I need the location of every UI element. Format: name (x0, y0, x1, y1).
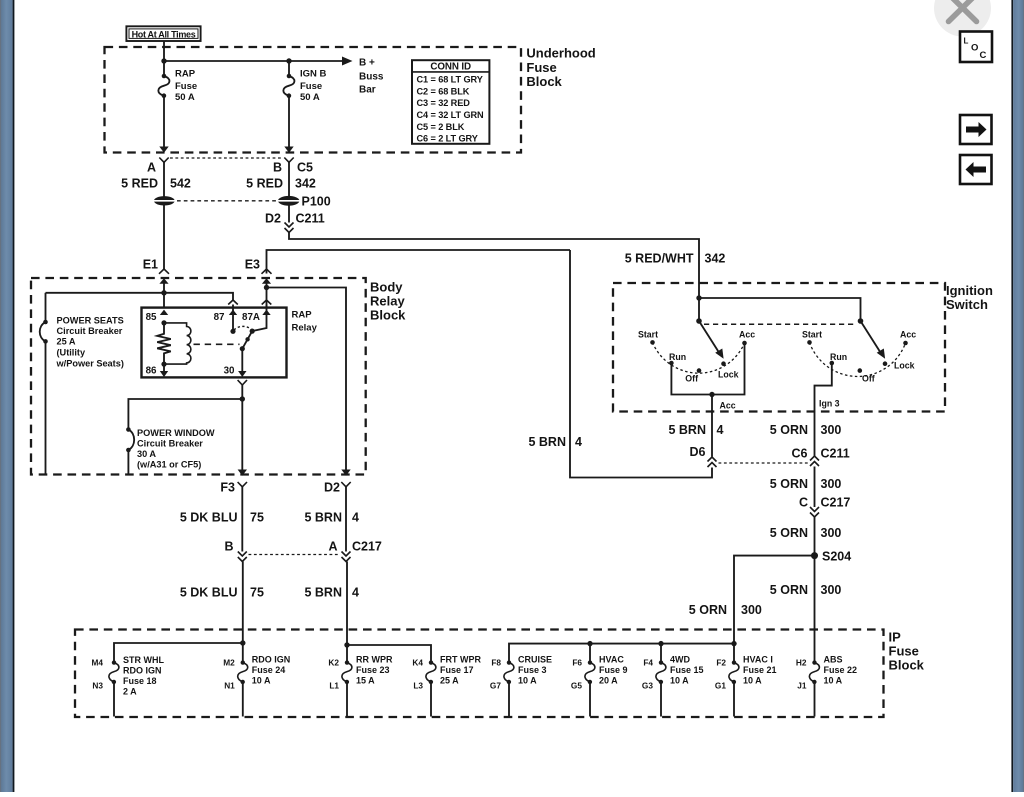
svg-text:Start: Start (802, 330, 822, 340)
svg-text:(w/A31 or CF5): (w/A31 or CF5) (137, 460, 201, 470)
svg-text:85: 85 (146, 312, 157, 323)
labels: fuse 4WD (642, 655, 704, 691)
svg-text:30 A: 30 A (137, 449, 156, 459)
svg-text:J1: J1 (797, 681, 807, 691)
node: left Start (650, 340, 655, 345)
svg-text:Fuse 18: Fuse 18 (123, 676, 157, 686)
wire: 5 DK BLU 75 upper (241, 487, 243, 552)
svg-text:Fuse 3: Fuse 3 (518, 665, 547, 675)
arrowhead: IGN B output at block edge (284, 147, 293, 153)
svg-text:Run: Run (669, 352, 686, 362)
connector pin A chevron below block (159, 158, 168, 163)
svg-text:HVAC I: HVAC I (743, 655, 773, 665)
labels: fuse HVAC (571, 655, 628, 691)
left wiper to Lock (699, 321, 719, 353)
svg-text:Underhood: Underhood (526, 46, 595, 61)
next page button (960, 115, 992, 144)
svg-text:10 A: 10 A (743, 676, 762, 686)
svg-text:G1: G1 (715, 681, 726, 691)
node: right Run (830, 361, 835, 366)
node: right Lock (883, 361, 888, 366)
svg-text:Acc: Acc (739, 330, 755, 340)
node: bus A junction (240, 640, 245, 645)
wire: S204 branch to HVAC I fuse (734, 556, 815, 663)
arrowhead: pin 85 inside relay (160, 310, 168, 315)
svg-text:w/Power Seats): w/Power Seats) (56, 359, 124, 369)
arrowhead: right wiper (877, 349, 885, 359)
connector A/C217 double chevron (342, 552, 351, 562)
svg-text:10 A: 10 A (518, 676, 537, 686)
wire: 5 BRN 4 return to E3 (570, 250, 712, 478)
svg-text:RR WPR: RR WPR (356, 655, 393, 665)
Underhood Fuse Block dashed border (105, 47, 522, 153)
wire: bus C riser to HVAC fuse (589, 644, 591, 663)
svg-text:P100: P100 (302, 195, 331, 209)
IP Fuse Block dashed border (75, 630, 884, 718)
connector D6 double chevron (708, 457, 717, 467)
connector D2/C211 double chevron (285, 223, 294, 233)
svg-text:5 ORN: 5 ORN (770, 423, 808, 437)
chevron: F3 connector (238, 482, 247, 487)
svg-text:C: C (799, 496, 808, 510)
svg-text:Acc: Acc (900, 330, 916, 340)
svg-text:C217: C217 (352, 540, 382, 554)
svg-text:Relay: Relay (292, 323, 318, 334)
node: E3 / D2 branch junction (264, 285, 269, 290)
labels: fuse RR WPR (328, 655, 393, 691)
wire: E3 branch across to D2 exit (267, 288, 347, 471)
svg-text:87: 87 (214, 312, 225, 323)
node: left Acc (742, 341, 747, 346)
fuse F15 4WD (656, 660, 666, 716)
fuse IGN B 50A (283, 74, 294, 98)
dotted connector link A-B (170, 157, 283, 159)
svg-text:87A: 87A (242, 312, 260, 323)
svg-text:D2: D2 (324, 481, 340, 495)
svg-text:L1: L1 (329, 681, 339, 691)
svg-text:RDO IGN: RDO IGN (252, 655, 291, 665)
svg-text:H2: H2 (796, 658, 807, 668)
svg-text:4: 4 (717, 423, 724, 437)
svg-text:K4: K4 (412, 658, 423, 668)
arrowhead: left wiper (715, 349, 723, 359)
wire: label box stub to fuse block (163, 41, 165, 61)
svg-text:M2: M2 (223, 658, 235, 668)
node: bus B junction (344, 642, 349, 647)
svg-text:Fuse 15: Fuse 15 (670, 665, 704, 675)
svg-text:50 A: 50 A (175, 92, 195, 103)
circuit breaker: POWER WINDOW 30A (126, 427, 134, 474)
svg-text:G5: G5 (571, 681, 582, 691)
svg-text:Run: Run (830, 352, 847, 362)
label: POWER WINDOW breaker (137, 428, 215, 470)
wire: pin 87 lead (232, 305, 234, 332)
node: left Lock (721, 361, 726, 366)
svg-text:5 ORN: 5 ORN (689, 603, 727, 617)
svg-text:HVAC: HVAC (599, 655, 624, 665)
labels: fuse RDO IGN (223, 655, 290, 691)
fuse F3 CRUISE (504, 660, 514, 716)
svg-text:C: C (980, 50, 987, 61)
fuse F17 FRT WPR (426, 660, 436, 716)
svg-text:Fuse: Fuse (889, 644, 919, 659)
svg-text:Fuse 9: Fuse 9 (599, 665, 628, 675)
resistor: relay coil suppression (157, 323, 171, 364)
svg-text:C217: C217 (821, 496, 851, 510)
svg-text:N3: N3 (92, 681, 103, 691)
svg-text:N1: N1 (224, 681, 235, 691)
wire: bus down to RAP fuse (163, 61, 165, 76)
connector pin E1 chevron (159, 269, 169, 274)
svg-text:D6: D6 (690, 445, 706, 459)
svg-text:C2 = 68 BLK: C2 = 68 BLK (417, 86, 470, 96)
svg-text:FRT WPR: FRT WPR (440, 655, 481, 665)
splice P100 left (152, 196, 177, 205)
wire: fuse bus segment C (509, 644, 734, 663)
svg-text:C5 = 2 BLK: C5 = 2 BLK (417, 122, 465, 132)
dotted arc: left switch positions (653, 342, 745, 373)
svg-text:Relay: Relay (370, 294, 405, 309)
connector C6/C211 double chevron (810, 456, 819, 466)
svg-text:F8: F8 (491, 658, 501, 668)
fuse F9 HVAC (585, 660, 595, 716)
arrowhead: pin 87 inside relay (229, 310, 237, 315)
svg-text:300: 300 (741, 603, 762, 617)
svg-text:A: A (328, 540, 337, 554)
svg-text:2 A: 2 A (123, 687, 137, 697)
node: right pole pivot (858, 318, 864, 324)
svg-text:10 A: 10 A (824, 676, 843, 686)
wire: fuse bus segment A (114, 643, 243, 663)
svg-text:Switch: Switch (946, 297, 988, 312)
node: coil bottom (161, 362, 166, 367)
node: wiper mid bead (245, 337, 249, 341)
dashed gang linkage (704, 323, 855, 325)
wire: 5 BRN 4 lower into IP block (346, 562, 348, 663)
wire: fuse bus segment B (347, 645, 431, 663)
svg-text:Body: Body (370, 280, 403, 295)
svg-text:POWER WINDOW: POWER WINDOW (137, 428, 215, 438)
svg-text:RAP: RAP (292, 310, 313, 321)
node: ignition feed junction (696, 295, 701, 300)
node: bus C junction at 4WD (658, 641, 663, 646)
chevron: D2 connector (341, 482, 350, 487)
wire: feed crossbar to right pole (699, 298, 861, 321)
wire: branch to power window breaker (128, 399, 242, 430)
svg-text:5 BRN: 5 BRN (304, 586, 342, 600)
svg-text:10 A: 10 A (670, 676, 689, 686)
dashed splice link P100 (177, 200, 276, 202)
svg-text:5 DK BLU: 5 DK BLU (180, 511, 238, 525)
svg-text:Ign 3: Ign 3 (819, 399, 840, 409)
svg-text:50 A: 50 A (300, 92, 320, 103)
svg-text:5 RED: 5 RED (121, 177, 158, 191)
svg-text:5 BRN: 5 BRN (304, 511, 342, 525)
svg-text:15 A: 15 A (356, 676, 375, 686)
wire: E1 to RAP relay pin 85 (163, 284, 165, 308)
svg-text:D2: D2 (265, 212, 281, 226)
node: Acc output junction (709, 392, 714, 397)
wire: Ign 3 output (815, 363, 832, 456)
svg-text:E3: E3 (245, 258, 260, 272)
svg-text:Fuse 21: Fuse 21 (743, 665, 777, 675)
svg-text:Bar: Bar (359, 85, 376, 96)
Hot At All Times label box (126, 26, 200, 41)
dotted arc: right switch positions (810, 342, 906, 376)
svg-text:4: 4 (352, 511, 359, 525)
svg-text:Fuse 17: Fuse 17 (440, 665, 474, 675)
arrowhead: E1 entering block (159, 278, 168, 284)
svg-text:4WD: 4WD (670, 655, 691, 665)
fuse F21 HVAC I (729, 660, 739, 716)
wire: pin 30 lead (241, 349, 243, 372)
svg-text:542: 542 (170, 177, 191, 191)
fuse F22 ABS (809, 660, 819, 716)
svg-text:5 BRN: 5 BRN (668, 423, 706, 437)
dotted throw arc: relay contact travel (234, 326, 251, 330)
svg-text:Off: Off (862, 374, 875, 384)
labels: fuse STR WHL (91, 655, 164, 697)
svg-text:Ignition: Ignition (946, 283, 993, 298)
wire: bus down to IGN B fuse (288, 61, 290, 76)
node: bus C junction at HVAC (587, 641, 592, 646)
svg-text:5 ORN: 5 ORN (770, 583, 808, 597)
svg-text:5 ORN: 5 ORN (770, 477, 808, 491)
chevron: pin 87A into relay (262, 300, 272, 305)
node: right Off (858, 368, 863, 373)
svg-text:G7: G7 (490, 681, 501, 691)
svg-text:Fuse 24: Fuse 24 (252, 665, 286, 675)
svg-text:C1 = 68 LT GRY: C1 = 68 LT GRY (417, 75, 483, 85)
B+ arrowhead (342, 57, 353, 66)
svg-text:C211: C211 (821, 447, 850, 461)
node: power window branch (240, 396, 245, 401)
svg-text:Circuit Breaker: Circuit Breaker (137, 439, 203, 449)
svg-text:342: 342 (295, 177, 316, 191)
fuse F23 RR WPR (342, 660, 352, 716)
prev page button (960, 155, 992, 184)
svg-text:RAP: RAP (175, 69, 196, 80)
svg-text:25 A: 25 A (440, 676, 459, 686)
CONN ID table text (417, 61, 485, 143)
wire: left Run/Acc tie (671, 343, 744, 395)
svg-text:300: 300 (821, 477, 842, 491)
svg-text:IGN B: IGN B (300, 69, 327, 80)
svg-text:C211: C211 (296, 212, 325, 226)
labels: fuse ABS (796, 655, 857, 691)
svg-text:CRUISE: CRUISE (518, 655, 552, 665)
svg-text:86: 86 (146, 366, 157, 377)
svg-text:ABS: ABS (824, 655, 843, 665)
circuit breaker: POWER SEATS 25A (40, 293, 48, 474)
svg-text:4: 4 (352, 586, 359, 600)
splice S204 (811, 552, 818, 559)
fuse RAP 50A (158, 74, 169, 98)
wire: breaker bus (power seats to pin 87) (46, 293, 234, 300)
svg-text:300: 300 (821, 526, 842, 540)
node: left pole pivot (696, 318, 702, 324)
wire: 5 RED 342 (B down to splice and C211) (288, 162, 290, 222)
wire: 5 DK BLU 75 lower into IP block (242, 562, 244, 663)
relay switch wiper (242, 331, 252, 349)
arrowhead: pin 86 to box edge (160, 371, 168, 377)
svg-text:300: 300 (821, 583, 842, 597)
svg-text:Start: Start (638, 330, 658, 340)
node: E1 / breaker bus junction (161, 290, 166, 295)
wire: 5 BRN 4 upper (to C217) (345, 487, 347, 552)
node: left Off (697, 368, 702, 373)
dotted connector link D6-C6 (719, 462, 809, 464)
svg-text:Hot At All Times: Hot At All Times (132, 30, 196, 40)
svg-text:Block: Block (889, 658, 925, 673)
fuse F24 RDO IGN (238, 660, 248, 716)
Body Relay Block dashed border (31, 278, 366, 475)
connector pin E3 chevron (262, 269, 272, 274)
RAP relay box (142, 308, 287, 378)
svg-text:Fuse 23: Fuse 23 (356, 665, 390, 675)
labels: fuse FRT WPR (412, 655, 481, 691)
svg-text:300: 300 (821, 423, 842, 437)
svg-text:C4 = 32 LT GRN: C4 = 32 LT GRN (417, 110, 485, 120)
svg-text:Lock: Lock (894, 361, 915, 371)
svg-text:20 A: 20 A (599, 676, 618, 686)
CONN ID table (412, 60, 489, 144)
svg-text:A: A (147, 161, 156, 175)
svg-text:F3: F3 (220, 481, 235, 495)
arrowhead: F3 exit at block edge (238, 470, 247, 476)
svg-text:B: B (273, 161, 282, 175)
svg-text:B: B (224, 540, 233, 554)
svg-text:L3: L3 (413, 681, 423, 691)
arrowhead: E3 entering block (262, 278, 271, 284)
svg-text:G3: G3 (642, 681, 653, 691)
svg-text:5 RED/WHT: 5 RED/WHT (625, 252, 694, 266)
svg-text:C6: C6 (792, 447, 808, 461)
svg-text:RDO IGN: RDO IGN (123, 666, 162, 676)
LOC button (960, 32, 992, 63)
svg-text:Fuse: Fuse (175, 81, 197, 92)
svg-text:Buss: Buss (359, 72, 384, 83)
relay pin labels (146, 312, 260, 377)
right window band (1011, 0, 1013, 792)
splice P100 right (276, 196, 301, 206)
wire: battery bus to B+ (164, 60, 343, 62)
wire: Acc output down (711, 395, 713, 457)
svg-text:5 BRN: 5 BRN (528, 435, 566, 449)
svg-text:30: 30 (224, 366, 235, 377)
arrowhead: pin 87A inside relay (262, 310, 270, 315)
svg-text:(Utility: (Utility (57, 348, 86, 358)
svg-text:K2: K2 (328, 658, 339, 668)
svg-text:Block: Block (526, 74, 562, 89)
wire: E3 to RAP relay pin 87A (266, 284, 268, 308)
svg-text:C6 = 2 LT GRY: C6 = 2 LT GRY (417, 134, 478, 144)
svg-text:Off: Off (685, 374, 698, 384)
svg-text:5 ORN: 5 ORN (770, 526, 808, 540)
dotted connector link C217 (249, 554, 341, 556)
svg-text:F2: F2 (716, 658, 726, 668)
svg-text:B +: B + (359, 58, 375, 69)
labels: fuse CRUISE (490, 655, 552, 691)
svg-text:10 A: 10 A (252, 676, 271, 686)
node: pin 87 contact (230, 329, 235, 334)
svg-text:Acc: Acc (720, 401, 736, 411)
svg-text:Fuse: Fuse (526, 60, 556, 75)
wire: pin 30 to F3 exit (241, 385, 243, 470)
svg-text:E1: E1 (143, 258, 158, 272)
svg-text:Lock: Lock (718, 370, 739, 380)
wire: left pole riser (698, 298, 700, 321)
connector B/C217 double chevron (238, 552, 247, 562)
svg-text:M4: M4 (91, 658, 103, 668)
svg-text:Circuit Breaker: Circuit Breaker (57, 326, 123, 336)
node: relay common (240, 346, 245, 351)
wire: 5 RED/WHT 342 to ignition switch (289, 233, 699, 299)
node: pin 87A contact (250, 329, 255, 334)
node: coil top (161, 320, 166, 325)
dashed linkage: coil to contact (194, 343, 240, 345)
node: left Run (669, 361, 674, 366)
svg-text:POWER SEATS: POWER SEATS (57, 316, 124, 326)
svg-text:Fuse 22: Fuse 22 (824, 665, 858, 675)
right wiper to Lock (861, 321, 881, 353)
connector C/C217 double chevron (810, 507, 819, 517)
svg-text:C3 = 32 RED: C3 = 32 RED (417, 98, 471, 108)
arrowhead: RAP output at block edge (159, 147, 168, 153)
svg-text:F6: F6 (572, 658, 582, 668)
wire: pin 86 lead (163, 364, 165, 371)
node: bus C junction at HVAC I (731, 641, 736, 646)
ignition switch position labels (638, 330, 916, 411)
svg-text:5 DK BLU: 5 DK BLU (180, 586, 238, 600)
wire: E3 riser to body relay block (267, 250, 571, 274)
node: bus / RAP fuse junction (161, 58, 166, 63)
svg-text:L: L (964, 37, 969, 46)
svg-text:342: 342 (705, 252, 726, 266)
label: POWER SEATS breaker (56, 316, 124, 369)
wire: 5 RED 542 (A down to splice and E1) (163, 162, 165, 269)
wire: 5 ORN 300 (C217 to ABS fuse) (814, 517, 816, 663)
svg-text:STR WHL: STR WHL (123, 655, 164, 665)
svg-text:75: 75 (250, 586, 264, 600)
svg-text:S204: S204 (822, 550, 851, 564)
fuse F18 STR WHL RDO IGN (109, 660, 119, 716)
connector pin B chevron below block (284, 158, 293, 163)
svg-text:C5: C5 (297, 161, 313, 175)
svg-text:25 A: 25 A (57, 337, 76, 347)
chevron: pin 87 into relay (228, 300, 238, 305)
arrowhead: pin 30 to box edge (238, 371, 246, 377)
wire: IGN B fuse to block edge (288, 96, 290, 148)
svg-text:F4: F4 (643, 658, 653, 668)
svg-text:4: 4 (575, 435, 582, 449)
close button (934, 0, 991, 37)
wire: pin 87A jog to contact (252, 305, 266, 332)
Ignition Switch dashed border (613, 283, 945, 412)
svg-text:5 RED: 5 RED (246, 177, 283, 191)
labels: fuse HVAC I (715, 655, 777, 691)
svg-text:O: O (971, 43, 978, 54)
svg-text:Block: Block (370, 308, 406, 323)
svg-text:CONN ID: CONN ID (430, 61, 471, 72)
node: right Acc (903, 341, 908, 346)
svg-text:IP: IP (889, 630, 902, 645)
node: right Start (807, 340, 812, 345)
svg-text:Fuse: Fuse (300, 81, 322, 92)
wire: bus C riser to 4WD fuse (660, 644, 662, 663)
chevron: pin 30 below relay (238, 380, 247, 385)
node: bus / IGN B fuse junction (286, 58, 291, 63)
